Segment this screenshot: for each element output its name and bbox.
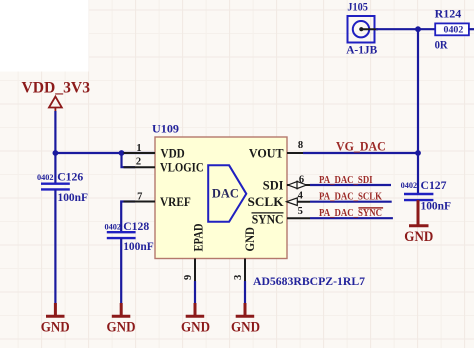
svg-text:0402: 0402 [444, 25, 464, 35]
DAC symbol polygon [208, 165, 246, 222]
svg-text:VG_DAC: VG_DAC [336, 140, 386, 154]
pin 8 [287, 152, 304, 154]
svg-text:0R: 0R [435, 37, 448, 51]
input arrow on SDI (bidirectional) [288, 181, 298, 188]
wire VDD horizontal to pin 1 [55, 152, 155, 154]
svg-text:VDD: VDD [161, 146, 185, 160]
svg-text:0402: 0402 [401, 180, 418, 190]
svg-text:100nF: 100nF [421, 199, 452, 213]
svg-text:4: 4 [298, 190, 304, 201]
wire pin3 to ground [244, 281, 246, 303]
svg-text:C126: C126 [57, 170, 83, 184]
vertical wire J105 to C127 [417, 29, 419, 193]
pin 6 [287, 184, 310, 186]
pin 9 EPAD [194, 259, 196, 282]
svg-text:8: 8 [298, 140, 303, 151]
svg-text:GND: GND [41, 319, 70, 335]
svg-text:A-1JB: A-1JB [346, 43, 377, 57]
pin 7 [124, 201, 156, 203]
svg-text:GND: GND [181, 319, 210, 335]
capacitor C127 [404, 194, 433, 200]
svg-text:VDD_3V3: VDD_3V3 [22, 80, 91, 97]
wire VDD vertical [54, 111, 56, 153]
ground under pin 3 [231, 303, 260, 335]
input arrow on SCLK [287, 198, 298, 206]
svg-text:AD5683RBCPZ-1RL7: AD5683RBCPZ-1RL7 [253, 274, 365, 288]
connector J105 [346, 0, 378, 57]
svg-text:2: 2 [136, 156, 141, 167]
svg-text:100nF: 100nF [123, 239, 154, 253]
wire C126 to ground [54, 189, 56, 303]
svg-text:7: 7 [137, 192, 142, 203]
junction VOUT net [415, 150, 421, 156]
svg-text:U109: U109 [152, 122, 179, 136]
svg-text:C127: C127 [421, 178, 447, 192]
wire EPAD to ground [194, 281, 196, 303]
svg-text:SDI: SDI [263, 178, 284, 192]
svg-text:GND: GND [404, 229, 433, 245]
svg-text:PA_DAC_SYNC: PA_DAC_SYNC [319, 208, 382, 219]
capacitor C128 [107, 232, 136, 238]
svg-text:PA_DAC_SCLK: PA_DAC_SCLK [319, 192, 382, 203]
resistor R124 [435, 7, 469, 52]
capacitor C126 [41, 184, 70, 190]
ground under C128 [107, 303, 136, 335]
junction J105/R124 [415, 26, 421, 32]
ground under C127 [404, 200, 433, 245]
wire VDD junction down to C126 [54, 153, 56, 183]
svg-text:J105: J105 [347, 0, 367, 14]
wire SDI net [310, 184, 391, 186]
svg-text:9: 9 [183, 275, 194, 280]
wire to VLOGIC pin 2 [122, 153, 136, 167]
svg-text:DAC: DAC [212, 187, 239, 201]
svg-text:5: 5 [298, 206, 303, 217]
junction VDD/C126 [53, 150, 59, 156]
wire J105 to R124 [376, 28, 435, 30]
wire C128 to ground [120, 238, 122, 303]
svg-text:SYNC: SYNC [252, 212, 284, 226]
svg-text:GND: GND [243, 227, 257, 252]
IC U109 body [155, 137, 287, 259]
power port VDD_3V3 [22, 80, 91, 112]
svg-text:GND: GND [107, 319, 136, 335]
svg-text:0402: 0402 [37, 172, 54, 182]
wire R124 right stub [469, 28, 474, 30]
svg-text:GND: GND [231, 319, 260, 335]
ground under C126 [41, 303, 70, 335]
svg-text:3: 3 [233, 275, 244, 280]
svg-text:VOUT: VOUT [249, 146, 284, 160]
svg-text:PA_DAC_SDI: PA_DAC_SDI [319, 175, 373, 186]
svg-text:C128: C128 [123, 219, 149, 233]
pin 5 [287, 217, 310, 219]
pin 3 GND [244, 259, 246, 282]
svg-text:SCLK: SCLK [248, 195, 285, 209]
svg-text:100nF: 100nF [58, 190, 89, 204]
svg-text:0402: 0402 [105, 221, 122, 231]
svg-text:VLOGIC: VLOGIC [160, 161, 204, 175]
svg-text:VREF: VREF [160, 195, 191, 209]
wire VOUT to vertical net [303, 152, 418, 154]
junction pin1/pin2 branch [119, 150, 125, 156]
wire SCLK net [310, 201, 392, 203]
svg-text:1: 1 [136, 143, 141, 154]
pin 1 [124, 152, 156, 154]
svg-text:R124: R124 [435, 7, 462, 21]
wire SYNC net [310, 217, 393, 219]
wire VREF pin 7 to C128 [121, 202, 135, 233]
pin 4 [287, 201, 310, 203]
svg-text:EPAD: EPAD [192, 223, 206, 251]
pin 2 [124, 166, 156, 168]
ground under EPAD [181, 303, 210, 335]
